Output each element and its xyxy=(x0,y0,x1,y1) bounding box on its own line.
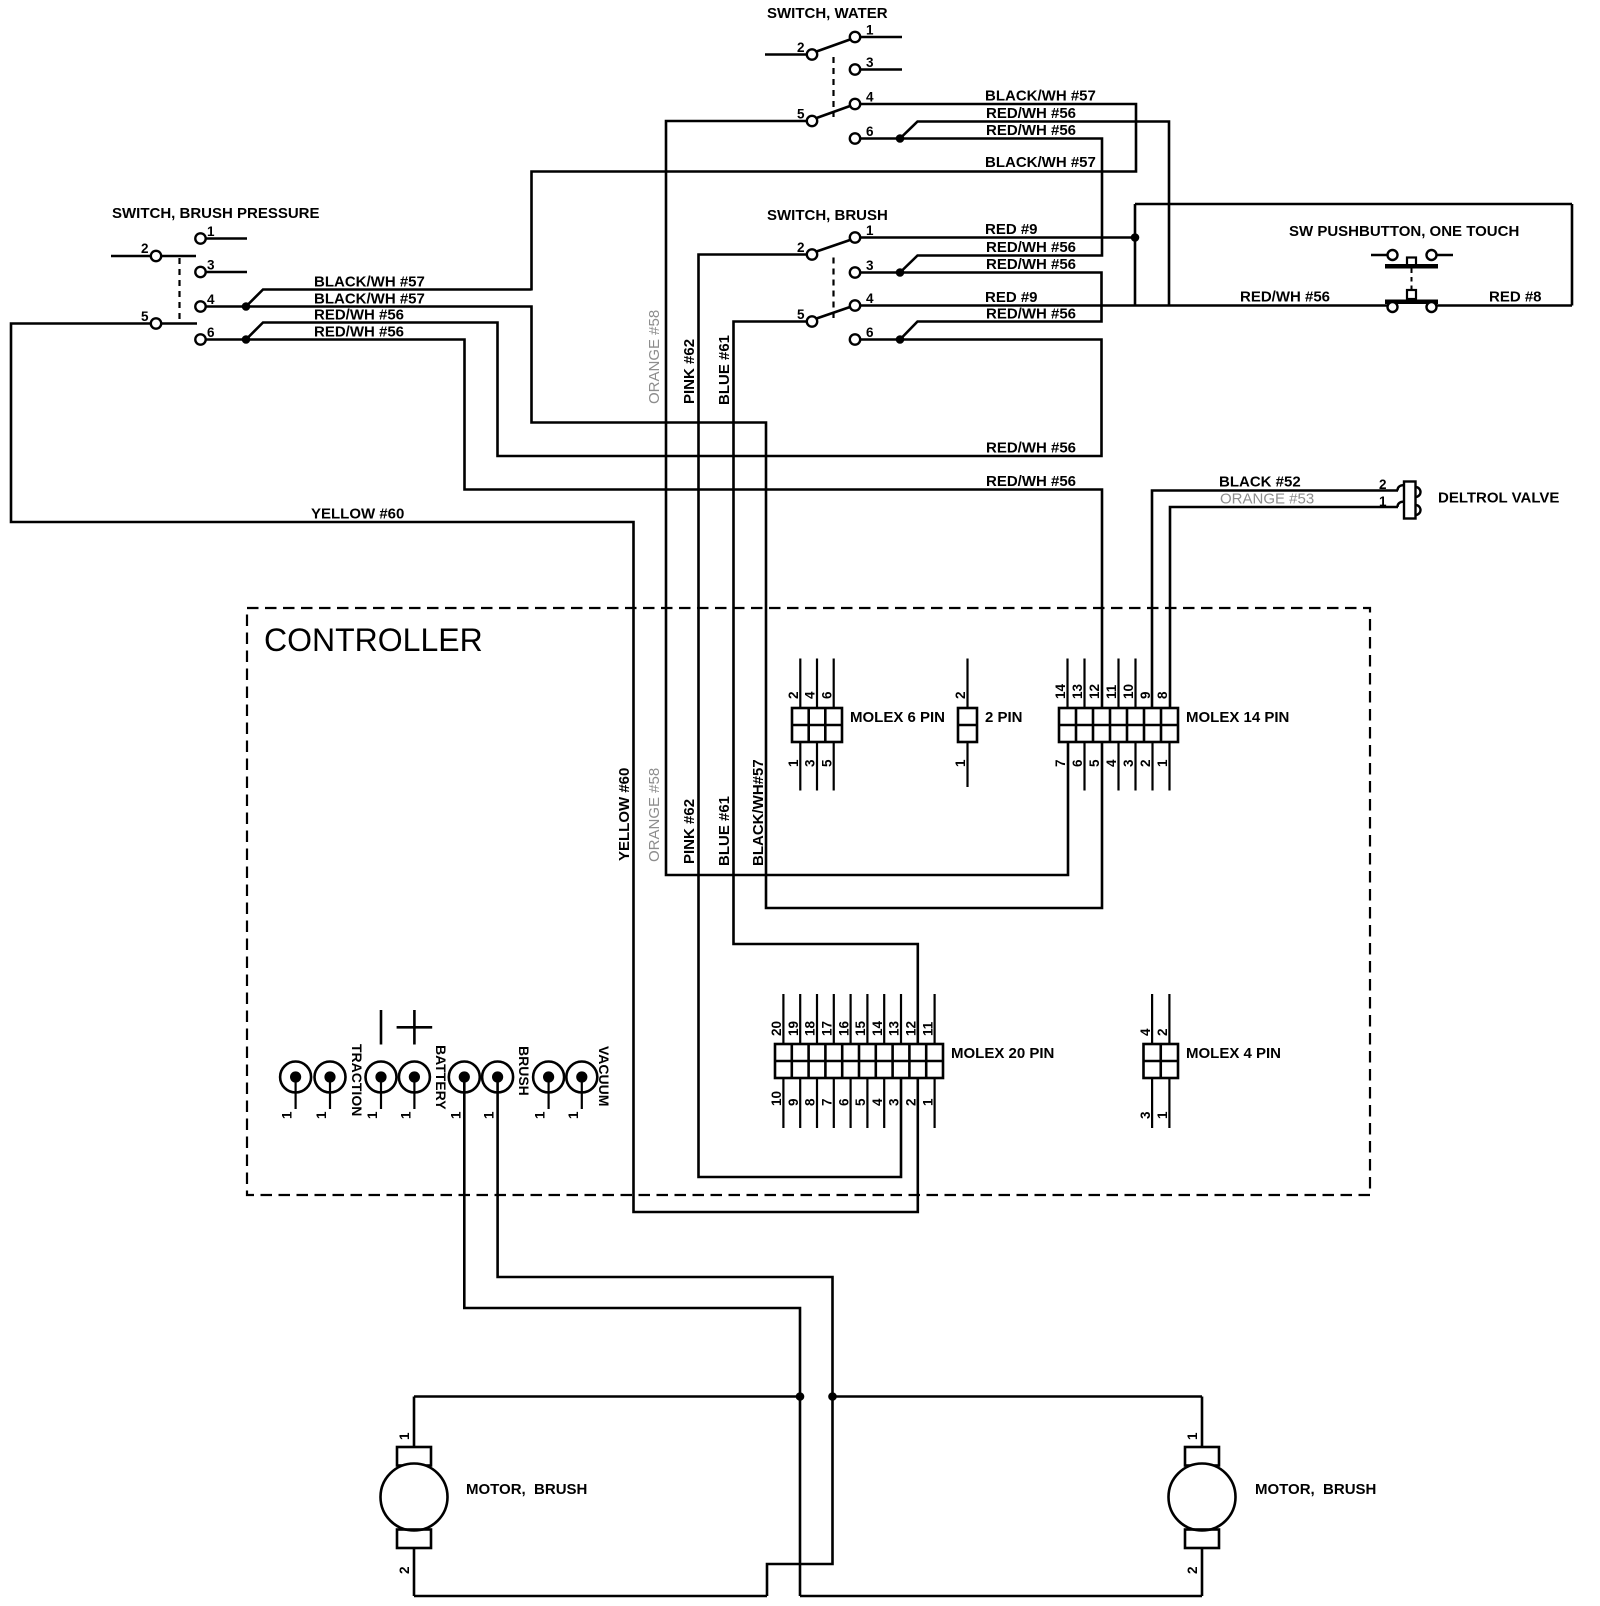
svg-text:5: 5 xyxy=(141,309,149,324)
svg-text:1: 1 xyxy=(1185,1432,1200,1440)
svg-text:VACUUM: VACUUM xyxy=(596,1046,612,1106)
label YELLOW #60 (vertical) xyxy=(616,768,633,861)
junction right motor top xyxy=(828,1392,837,1401)
wire RED #9 S3.4 to pushbutton box corner xyxy=(861,304,1136,307)
svg-text:2: 2 xyxy=(797,40,805,55)
wire left motor bottom xyxy=(414,1595,767,1598)
svg-text:3: 3 xyxy=(1138,1111,1153,1119)
connector J4 MOLEX 20 PIN body xyxy=(775,994,943,1128)
wire PINK #62 S3.2 to MOLEX20.3 xyxy=(699,255,902,1178)
svg-text:6: 6 xyxy=(1070,759,1085,767)
switch S3 pin 4 terminal xyxy=(850,291,874,311)
svg-text:RED/WH #56: RED/WH #56 xyxy=(986,122,1076,139)
wire RED #9 S3.1 to pushbutton box xyxy=(861,236,1136,239)
switch S1 pin 3 terminal xyxy=(195,258,247,278)
wire BLACK #52 valve pin 2 to MOLEX14.9 xyxy=(1152,491,1398,708)
svg-text:BLUE #61: BLUE #61 xyxy=(716,796,733,866)
wire terminal5 to left motor junction xyxy=(464,1082,800,1397)
svg-text:1: 1 xyxy=(866,23,874,38)
switch S3 pin 1 terminal xyxy=(850,223,874,243)
switch S3 SWITCH, BRUSH label xyxy=(767,207,888,224)
connector J1 pin labels bottom xyxy=(786,759,834,767)
svg-text:2: 2 xyxy=(786,691,801,699)
svg-text:16: 16 xyxy=(836,1020,851,1036)
svg-text:12: 12 xyxy=(1087,684,1102,699)
valve pin 1 number xyxy=(1379,494,1387,509)
svg-text:2: 2 xyxy=(797,240,805,255)
svg-text:8: 8 xyxy=(803,1098,818,1106)
svg-text:4: 4 xyxy=(1138,1028,1153,1036)
connector J3 pin labels bottom xyxy=(1053,759,1170,767)
wire ORANGE #53 valve pin 1 to MOLEX14.8 xyxy=(1170,507,1398,707)
svg-text:MOLEX 6 PIN: MOLEX 6 PIN xyxy=(850,709,945,726)
svg-text:5: 5 xyxy=(797,307,805,322)
svg-text:RED #9: RED #9 xyxy=(985,289,1038,306)
svg-text:1: 1 xyxy=(1155,759,1170,767)
svg-text:SW PUSHBUTTON, ONE TOUCH: SW PUSHBUTTON, ONE TOUCH xyxy=(1289,223,1519,240)
svg-text:YELLOW #60: YELLOW #60 xyxy=(311,506,404,523)
label BLACK/WH #57 (top) xyxy=(985,88,1096,105)
svg-text:PINK #62: PINK #62 xyxy=(681,339,698,404)
switch S2 SWITCH, WATER label xyxy=(767,5,888,22)
terminal stud 2 xyxy=(314,1062,346,1120)
svg-text:1: 1 xyxy=(365,1111,380,1119)
svg-text:3: 3 xyxy=(866,258,874,273)
label BLACK #52 xyxy=(1219,474,1301,491)
svg-text:11: 11 xyxy=(1104,684,1119,699)
svg-text:4: 4 xyxy=(866,291,874,306)
svg-text:1: 1 xyxy=(953,759,968,767)
label VACUUM (rotated) xyxy=(596,1046,612,1106)
svg-text:BLACK/WH #57: BLACK/WH #57 xyxy=(985,154,1096,171)
svg-text:6: 6 xyxy=(866,124,874,139)
svg-text:MOTOR, BRUSH: MOTOR, BRUSH xyxy=(466,1481,587,1498)
wire left motor top crossover to right motor bottom xyxy=(799,1397,802,1597)
svg-text:ORANGE #53: ORANGE #53 xyxy=(1220,491,1314,508)
switch S2 pin 2 terminal xyxy=(765,40,817,60)
svg-text:RED/WH #56: RED/WH #56 xyxy=(986,473,1076,490)
svg-text:4: 4 xyxy=(1104,759,1119,767)
switch S1 pin 2 blade xyxy=(162,255,197,258)
label BLACK/WH#57 (vertical, controller) xyxy=(750,759,767,866)
label 2 PIN xyxy=(985,709,1023,726)
motor M2 body xyxy=(1169,1447,1236,1548)
svg-text:RED/WH #56: RED/WH #56 xyxy=(986,306,1076,323)
svg-text:5: 5 xyxy=(797,107,805,122)
switch S2 mechanical link (dashed) xyxy=(832,57,834,117)
svg-text:RED/WH #56: RED/WH #56 xyxy=(986,105,1076,122)
label RED #9 (y305) xyxy=(985,289,1038,306)
switch S3 blade 5-4 xyxy=(817,307,851,319)
svg-text:1: 1 xyxy=(397,1432,412,1440)
svg-text:2: 2 xyxy=(397,1566,412,1574)
wire right motor bottom xyxy=(800,1595,1202,1598)
svg-text:MOTOR, BRUSH: MOTOR, BRUSH xyxy=(1255,1481,1376,1498)
switch S1 pin 1 terminal xyxy=(195,224,247,244)
label YELLOW #60 (horizontal) xyxy=(311,506,404,523)
label BRUSH (rotated) xyxy=(516,1046,532,1096)
label RED/WH #56 (y138) xyxy=(986,122,1076,139)
valve V1 DELTROL VALVE body xyxy=(1397,482,1420,519)
svg-text:4: 4 xyxy=(207,292,215,307)
svg-text:RED #9: RED #9 xyxy=(985,221,1038,238)
connector J5 pin labels top xyxy=(1138,1028,1170,1036)
terminal stud 4 xyxy=(398,1062,430,1120)
wire BLACK/WH #57 S1.4 to controller MOLEX14.5 xyxy=(246,307,1102,909)
svg-text:8: 8 xyxy=(1155,691,1170,699)
svg-text:13: 13 xyxy=(1070,683,1085,699)
wire RED/WH #56 S3.3 to S3.6 xyxy=(900,273,1102,340)
label RED/WH #56 (y321) xyxy=(986,306,1076,323)
svg-text:RED #8: RED #8 xyxy=(1489,289,1542,306)
svg-text:3: 3 xyxy=(207,258,215,273)
svg-text:BATTERY: BATTERY xyxy=(433,1045,449,1110)
svg-text:1: 1 xyxy=(920,1098,935,1106)
svg-text:RED/WH #56: RED/WH #56 xyxy=(986,440,1076,457)
battery minus mark xyxy=(380,1010,383,1045)
controller U1 boundary (dashed) xyxy=(247,608,1370,1195)
svg-text:20: 20 xyxy=(769,1021,784,1036)
svg-text:1: 1 xyxy=(786,759,801,767)
svg-text:17: 17 xyxy=(820,1021,835,1036)
svg-text:BLACK/WH #57: BLACK/WH #57 xyxy=(314,274,425,291)
junction left motor top xyxy=(796,1392,805,1401)
svg-text:RED/WH #56: RED/WH #56 xyxy=(1240,289,1330,306)
svg-text:1: 1 xyxy=(482,1111,497,1119)
pushbutton S4 lower bar xyxy=(1385,300,1438,305)
svg-text:2: 2 xyxy=(1138,759,1153,767)
terminal stud 7 xyxy=(533,1062,565,1120)
label BLUE #61 (vertical upper) xyxy=(716,335,733,405)
connector J1 pin labels top xyxy=(786,691,834,699)
wire terminal6 to right motor junction xyxy=(498,1082,833,1397)
switch S1 mechanical link (dashed) xyxy=(178,258,180,322)
pushbutton S4 plunger link (dashed) xyxy=(1411,269,1413,290)
svg-text:7: 7 xyxy=(820,1098,835,1106)
junction RED #9 at pushbutton box edge xyxy=(1131,233,1140,242)
svg-text:BLACK/WH#57: BLACK/WH#57 xyxy=(750,759,767,866)
switch S2 pin 4 terminal xyxy=(850,90,874,110)
label MOLEX 6 PIN xyxy=(850,709,945,726)
svg-text:2 PIN: 2 PIN xyxy=(985,709,1023,726)
label RED #9 (y237) xyxy=(985,221,1038,238)
svg-text:19: 19 xyxy=(786,1021,801,1036)
junction at S3 pin 3 xyxy=(896,268,905,277)
svg-text:13: 13 xyxy=(887,1020,902,1036)
motor M1 body xyxy=(381,1447,448,1548)
label MOLEX 20 PIN xyxy=(951,1045,1054,1062)
switch S2 blade 5-4 xyxy=(817,106,851,118)
svg-text:2: 2 xyxy=(141,241,149,256)
label MOLEX 4 PIN xyxy=(1186,1045,1281,1062)
svg-text:5: 5 xyxy=(853,1098,868,1106)
svg-text:1: 1 xyxy=(314,1111,329,1119)
svg-text:6: 6 xyxy=(819,691,834,699)
svg-text:RED/WH #56: RED/WH #56 xyxy=(314,307,404,324)
svg-text:2: 2 xyxy=(1185,1566,1200,1574)
label ORANGE #58 (vertical upper, gray) xyxy=(646,310,663,404)
label RED/WH #56 (left b) xyxy=(314,324,404,341)
terminal stud 1 xyxy=(280,1062,312,1120)
label RED #8 (inside pushbutton) xyxy=(1489,289,1542,306)
switch S2 pin 6 terminal xyxy=(850,124,899,144)
svg-text:MOLEX 20 PIN: MOLEX 20 PIN xyxy=(951,1045,1054,1062)
svg-text:1: 1 xyxy=(280,1111,295,1119)
label RED/WH #56 (inside pushbutton) xyxy=(1240,289,1330,306)
terminal stud 5 xyxy=(448,1062,480,1120)
switch S3 mechanical link (dashed) xyxy=(832,258,834,319)
svg-text:ORANGE #58: ORANGE #58 xyxy=(646,768,663,862)
svg-text:15: 15 xyxy=(853,1020,868,1036)
label MOTOR, BRUSH (left) xyxy=(466,1481,587,1498)
svg-text:6: 6 xyxy=(207,325,215,340)
label RED/WH #56 (y255) xyxy=(986,239,1076,256)
connector J3 MOLEX 14 PIN body xyxy=(1059,659,1178,791)
svg-text:BLUE #61: BLUE #61 xyxy=(716,335,733,405)
svg-text:ORANGE #58: ORANGE #58 xyxy=(646,310,663,404)
switch S3 pin 2 terminal xyxy=(797,240,817,260)
pushbutton S4 upper contact circles xyxy=(1388,250,1437,260)
svg-text:10: 10 xyxy=(769,1091,784,1106)
valve pin 2 number xyxy=(1379,477,1387,492)
label PINK #62 (vertical upper) xyxy=(681,339,698,404)
svg-text:PINK #62: PINK #62 xyxy=(681,799,698,864)
connector J5 pin labels bottom xyxy=(1138,1111,1170,1119)
switch S3 blade 2-1 xyxy=(817,240,851,252)
svg-text:4: 4 xyxy=(866,90,874,105)
terminal stud 3 xyxy=(365,1062,397,1120)
svg-text:1: 1 xyxy=(448,1111,463,1119)
terminal stud 8 xyxy=(566,1062,598,1120)
junction at S3 pin 6 xyxy=(896,335,905,344)
wire RED/WH #56 S1.6 straight branch to MOLEX14.12 xyxy=(246,340,1102,708)
svg-text:5: 5 xyxy=(819,759,834,767)
motor M1 pin 2 lead xyxy=(397,1548,414,1596)
switch S1 pin 5 terminal xyxy=(141,309,161,329)
svg-text:9: 9 xyxy=(786,1098,801,1106)
connector J4 pin labels top xyxy=(769,1020,935,1036)
switch S1 pin 2 terminal xyxy=(111,241,161,261)
svg-text:6: 6 xyxy=(866,325,874,340)
label RED/WH #56 (y272) xyxy=(986,256,1076,273)
svg-text:SWITCH, BRUSH PRESSURE: SWITCH, BRUSH PRESSURE xyxy=(112,205,320,222)
motor M2 pin 2 lead xyxy=(1185,1548,1202,1596)
svg-text:1: 1 xyxy=(566,1111,581,1119)
connector J5 MOLEX 4 PIN body xyxy=(1144,994,1179,1128)
junction at S2 pin 6 xyxy=(896,134,905,143)
svg-text:TRACTION: TRACTION xyxy=(349,1044,365,1116)
svg-text:CONTROLLER: CONTROLLER xyxy=(264,622,483,658)
wire BLUE #61 S3.5 to MOLEX20.12 xyxy=(734,322,918,1044)
switch S1 pin 5 blade xyxy=(162,322,198,325)
label MOLEX 14 PIN xyxy=(1186,709,1289,726)
wire BLACK/WH #57 S1.4 to S2.4 xyxy=(246,104,1136,307)
svg-text:BLACK/WH #57: BLACK/WH #57 xyxy=(985,88,1096,105)
motor M1 pin 1 lead xyxy=(397,1397,414,1449)
svg-text:BRUSH: BRUSH xyxy=(516,1046,532,1096)
wire RED/WH #56 S2.6 straight to S3.3 diag xyxy=(900,139,1102,273)
label DELTROL VALVE xyxy=(1438,490,1559,507)
svg-text:18: 18 xyxy=(803,1020,818,1036)
switch S3 pin 6 terminal xyxy=(850,325,899,345)
svg-text:14: 14 xyxy=(870,1020,885,1036)
label RED/WH #56 (y121) xyxy=(986,105,1076,122)
svg-text:11: 11 xyxy=(920,1021,935,1036)
svg-text:DELTROL VALVE: DELTROL VALVE xyxy=(1438,490,1559,507)
svg-text:RED/WH #56: RED/WH #56 xyxy=(314,324,404,341)
motor M2 pin 1 lead xyxy=(1185,1397,1202,1449)
svg-text:4: 4 xyxy=(870,1098,885,1106)
svg-text:3: 3 xyxy=(866,55,874,70)
connector J2 pin labels xyxy=(953,691,968,767)
svg-text:3: 3 xyxy=(1121,759,1136,767)
svg-text:BLACK #52: BLACK #52 xyxy=(1219,474,1301,491)
wire left motor top xyxy=(414,1395,800,1398)
pushbutton S4 upper bar xyxy=(1385,264,1438,269)
svg-text:MOLEX 4 PIN: MOLEX 4 PIN xyxy=(1186,1045,1281,1062)
svg-text:2: 2 xyxy=(904,1098,919,1106)
svg-text:3: 3 xyxy=(887,1098,902,1106)
pushbutton S4 upper contact stub right xyxy=(1437,254,1454,257)
label TRACTION (rotated) xyxy=(349,1044,365,1116)
svg-text:12: 12 xyxy=(904,1021,919,1036)
label BLACK/WH #57 (mid) xyxy=(985,154,1096,171)
svg-text:SWITCH, BRUSH: SWITCH, BRUSH xyxy=(767,207,888,224)
switch S1 pin 4 terminal xyxy=(195,292,246,312)
switch S2 pin 1 terminal xyxy=(850,23,902,43)
switch S1 pin 6 terminal xyxy=(195,325,246,345)
svg-text:6: 6 xyxy=(836,1098,851,1106)
svg-text:1: 1 xyxy=(866,223,874,238)
pushbutton S4 lower plunger square xyxy=(1407,290,1416,299)
svg-text:1: 1 xyxy=(1379,494,1387,509)
svg-text:4: 4 xyxy=(803,691,818,699)
svg-text:BLACK/WH #57: BLACK/WH #57 xyxy=(314,291,425,308)
switch S3 pin 5 terminal xyxy=(797,307,817,327)
wire right motor top xyxy=(833,1395,1203,1398)
wire right motor top crossover to left motor bottom xyxy=(767,1397,833,1597)
svg-text:9: 9 xyxy=(1138,691,1153,699)
pushbutton S4 title xyxy=(1289,223,1519,240)
label RED/WH #56 (left a) xyxy=(314,307,404,324)
pushbutton S4 lower contact circles xyxy=(1388,302,1437,312)
svg-text:1: 1 xyxy=(398,1111,413,1119)
wire RED/WH #56 S2.6 diag to pushbutton xyxy=(900,122,1169,306)
svg-text:7: 7 xyxy=(1053,759,1068,767)
switch S2 pin 5 terminal xyxy=(797,107,817,127)
svg-text:YELLOW #60: YELLOW #60 xyxy=(616,768,633,861)
pushbutton S4 upper contact stub left xyxy=(1371,254,1388,257)
connector J2 2 PIN body xyxy=(958,659,977,788)
switch S2 pin 3 terminal xyxy=(850,55,902,75)
switch S1 SWITCH, BRUSH PRESSURE label xyxy=(112,205,320,222)
label PINK #62 (vertical lower) xyxy=(681,799,698,864)
label RED/WH #56 (y456) xyxy=(986,440,1076,457)
controller U1 label xyxy=(264,622,483,658)
pushbutton S4 upper plunger square xyxy=(1407,258,1416,267)
svg-text:RED/WH #56: RED/WH #56 xyxy=(986,256,1076,273)
label BLUE #61 (vertical lower) xyxy=(716,796,733,866)
svg-text:SWITCH, WATER: SWITCH, WATER xyxy=(767,5,888,22)
svg-text:14: 14 xyxy=(1053,683,1068,699)
connector J1 MOLEX 6 PIN body xyxy=(792,659,842,791)
connector J4 pin labels bottom xyxy=(769,1091,935,1106)
junction at S1 pin 6 xyxy=(242,335,251,344)
svg-text:RED/WH #56: RED/WH #56 xyxy=(986,239,1076,256)
label MOTOR, BRUSH (right) xyxy=(1255,1481,1376,1498)
junction at S1 pin 4 xyxy=(242,302,251,311)
label ORANGE #58 (vertical lower, gray) xyxy=(646,768,663,862)
label BLACK/WH #57 (upper left) xyxy=(314,274,425,291)
label BATTERY (rotated) xyxy=(433,1045,449,1110)
switch S2 blade 2-1 xyxy=(817,40,851,52)
switch S3 pin 3 terminal xyxy=(850,258,899,278)
pushbutton S4 enclosure box xyxy=(1135,204,1572,306)
svg-text:2: 2 xyxy=(1155,1028,1170,1036)
svg-text:10: 10 xyxy=(1121,684,1136,699)
svg-text:2: 2 xyxy=(953,691,968,699)
svg-text:1: 1 xyxy=(533,1111,548,1119)
svg-text:1: 1 xyxy=(207,224,215,239)
svg-text:3: 3 xyxy=(803,759,818,767)
svg-text:2: 2 xyxy=(1379,477,1387,492)
wire YELLOW #60 S1.5 to MOLEX20.2 xyxy=(11,324,918,1213)
wire ORANGE #58 S2.5 to MOLEX14.7 xyxy=(666,121,1068,875)
svg-text:5: 5 xyxy=(1087,759,1102,767)
svg-text:1: 1 xyxy=(1155,1111,1170,1119)
battery plus mark xyxy=(397,1010,433,1045)
wire RED/WH #56 S1.6 diag branch to S3.6 xyxy=(246,323,1102,457)
label ORANGE #53 (gray) xyxy=(1220,491,1314,508)
terminal stud 6 xyxy=(482,1062,513,1120)
label BLACK/WH #57 (lower left) xyxy=(314,291,425,308)
svg-text:MOLEX 14 PIN: MOLEX 14 PIN xyxy=(1186,709,1289,726)
connector J3 pin labels top xyxy=(1053,683,1170,699)
label RED/WH #56 (y489) xyxy=(986,473,1076,490)
